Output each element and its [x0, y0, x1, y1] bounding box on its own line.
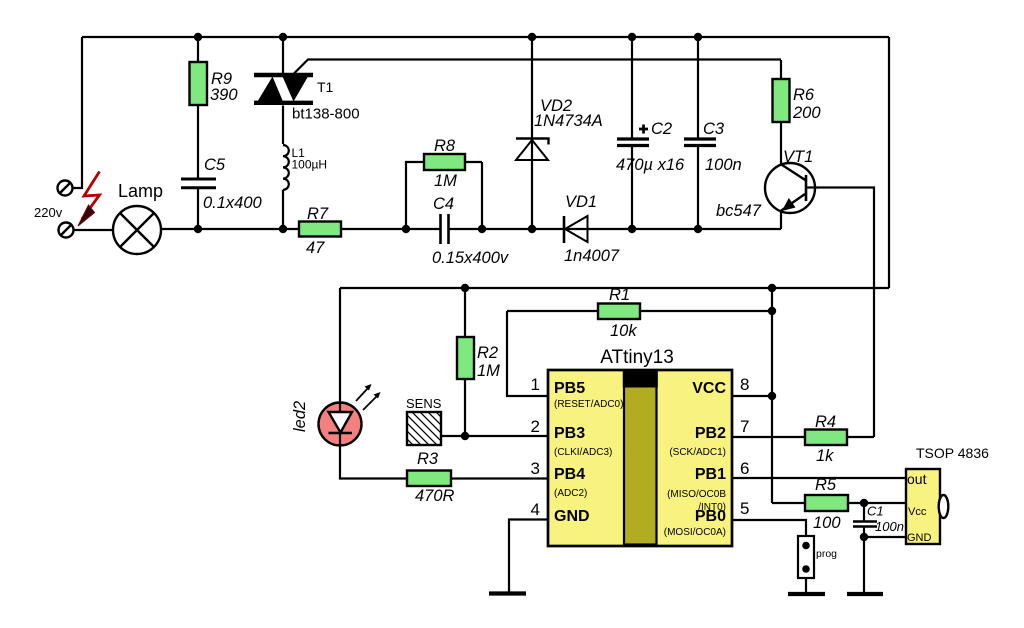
svg-text:10k: 10k [610, 322, 637, 340]
svg-text:out: out [907, 471, 927, 487]
node junction top T1 [279, 33, 287, 41]
resistor R1 [507, 286, 772, 340]
node junction top VD2 [528, 33, 536, 41]
svg-text:100µH: 100µH [292, 158, 328, 172]
svg-text:2: 2 [531, 417, 540, 436]
svg-text:GND: GND [554, 508, 590, 525]
resistor R5 [805, 476, 906, 532]
node junction bottom C4 right [478, 225, 486, 233]
svg-text:100n: 100n [705, 156, 742, 174]
ground prog [788, 592, 825, 596]
svg-text:100: 100 [813, 514, 841, 532]
diode VD1 [564, 193, 620, 265]
svg-text:prog: prog [816, 548, 837, 560]
wire VT1 emitter drop [780, 211, 782, 229]
svg-text:200: 200 [792, 104, 821, 122]
svg-text:bc547: bc547 [716, 202, 762, 220]
terminal 220v top [58, 181, 73, 196]
wire pin8 VCC [732, 395, 772, 397]
svg-text:VCC: VCC [692, 380, 726, 397]
svg-text:TSOP 4836: TSOP 4836 [916, 445, 989, 461]
zener diode VD2 [516, 37, 603, 229]
wire top rail [82, 36, 889, 38]
node junction bottom C4 left [402, 225, 410, 233]
wire T1 gate [294, 60, 781, 74]
node junction C1 top [860, 499, 868, 507]
node junction top C2 [628, 33, 636, 41]
svg-text:R7: R7 [307, 205, 329, 223]
lamp [113, 206, 161, 254]
svg-text:1M: 1M [477, 362, 500, 380]
transistor VT1 [716, 148, 815, 220]
wire pin6 to TSOP out [732, 477, 906, 479]
sensor SENS [406, 396, 548, 445]
svg-text:PB3: PB3 [554, 425, 585, 442]
capacitor C4 [432, 195, 510, 267]
pin 8 label VCC [692, 375, 749, 397]
svg-text:1n4007: 1n4007 [564, 247, 620, 265]
capacitor C2 electrolytic [616, 37, 685, 229]
svg-text:(MOSI/OC0A): (MOSI/OC0A) [664, 527, 726, 538]
svg-text:R3: R3 [417, 450, 439, 468]
wire pin1 [507, 311, 548, 396]
node junction top C3 [694, 33, 702, 41]
svg-text:SENS: SENS [406, 396, 442, 411]
pin 4 label GND [531, 500, 590, 525]
svg-text:PB0: PB0 [695, 508, 726, 525]
svg-text:1M: 1M [434, 172, 457, 190]
resistor R4 [805, 413, 874, 465]
svg-text:470µ x16: 470µ x16 [616, 156, 685, 174]
svg-text:GND: GND [907, 532, 932, 544]
node junction R2 top [461, 284, 469, 292]
svg-text:R6: R6 [793, 86, 815, 104]
svg-text:(ADC2): (ADC2) [554, 488, 587, 499]
svg-text:Lamp: Lamp [118, 181, 163, 201]
resistor R6 [773, 60, 822, 165]
lightning arrow [78, 172, 100, 227]
pin 1 label PB5 [531, 375, 624, 410]
svg-text:C4: C4 [433, 195, 454, 213]
svg-text:led2: led2 [291, 401, 309, 432]
svg-text:R1: R1 [609, 286, 630, 304]
svg-text:47: 47 [306, 239, 325, 257]
svg-text:Vcc: Vcc [908, 506, 927, 518]
svg-text:C3: C3 [703, 120, 725, 138]
svg-text:1: 1 [531, 375, 540, 394]
IC TSOP4836 body [906, 445, 989, 544]
node junction bottom C5 [194, 225, 202, 233]
resistor R9 [190, 37, 239, 179]
wire bottom mains run [74, 229, 781, 230]
resistor R7 [299, 205, 341, 257]
svg-text:220v: 220v [34, 205, 63, 220]
svg-text:C5: C5 [204, 156, 226, 174]
wire pin5 to prog [732, 520, 806, 536]
wire left drop to terminal [73, 37, 82, 188]
pin 3 label PB4 [531, 459, 588, 499]
pin 6 label PB1 [667, 459, 749, 513]
inductor L1 [283, 145, 327, 229]
svg-text:390: 390 [210, 86, 238, 104]
triac T1 [254, 37, 360, 144]
svg-text:1k: 1k [816, 447, 834, 465]
node junction bottom L1 [279, 225, 287, 233]
node junction top R9 [194, 33, 202, 41]
svg-text:PB4: PB4 [554, 466, 585, 483]
pin 5 label PB0 [664, 499, 750, 538]
svg-text:VT1: VT1 [783, 148, 813, 166]
pin 7 label PB2 [669, 417, 749, 458]
connector prog [798, 536, 837, 592]
svg-text:(SCK/ADC1): (SCK/ADC1) [669, 447, 726, 458]
svg-text:7: 7 [740, 417, 749, 436]
ground C1 [847, 592, 883, 596]
wire led2 branch down [340, 288, 407, 479]
svg-text:PB1: PB1 [695, 466, 726, 483]
svg-text:C1: C1 [867, 504, 884, 519]
node junction pin8 [768, 392, 776, 400]
svg-text:4: 4 [531, 500, 540, 519]
capacitor C3 [684, 37, 742, 229]
svg-text:0.1x400: 0.1x400 [203, 194, 263, 212]
node junction C1 bottom / TSOP GND [860, 533, 868, 541]
resistor R2 [457, 288, 500, 436]
svg-text:ATtiny13: ATtiny13 [600, 347, 674, 368]
IC U1 ATtiny13 body [548, 347, 732, 546]
svg-text:bt138-800: bt138-800 [292, 106, 360, 123]
wire VCC vertical [772, 288, 805, 503]
node junction bottom C2 [628, 225, 636, 233]
capacitor C5 [181, 156, 263, 229]
LED led2 [291, 384, 381, 447]
svg-text:6: 6 [740, 459, 749, 478]
svg-text:VD1: VD1 [565, 193, 597, 211]
svg-text:(CLKI/ADC3): (CLKI/ADC3) [554, 447, 612, 458]
svg-text:C2: C2 [651, 120, 672, 138]
svg-text:R4: R4 [815, 413, 836, 431]
wire pin4 GND [509, 520, 548, 593]
svg-text:3: 3 [531, 459, 540, 478]
svg-text:PB5: PB5 [554, 380, 585, 397]
node junction bottom VD2 [528, 225, 536, 233]
pin 2 label PB3 [531, 417, 613, 458]
svg-text:R5: R5 [815, 476, 837, 494]
svg-text:T1: T1 [317, 79, 334, 95]
capacitor C1 [853, 503, 904, 537]
node junction R2 bottom / pin2 [461, 432, 469, 440]
wire right drop from top rail [888, 37, 890, 288]
svg-text:R8: R8 [434, 137, 456, 155]
terminal 220v bottom [59, 223, 74, 238]
wire TSOP GND [864, 537, 906, 592]
resistor R3 [407, 450, 548, 505]
svg-text:1N4734A: 1N4734A [534, 112, 603, 130]
node junction bottom C3 [694, 225, 702, 233]
svg-text:8: 8 [740, 375, 749, 394]
resistor R8 [406, 137, 482, 229]
svg-text:0.15x400v: 0.15x400v [432, 249, 510, 267]
svg-text:470R: 470R [415, 487, 455, 505]
wire VT1 base to R4 [806, 188, 874, 438]
svg-text:R2: R2 [477, 344, 498, 362]
svg-text:100n: 100n [875, 519, 904, 534]
ground pin4 [489, 591, 526, 595]
svg-text:5: 5 [740, 499, 749, 518]
node junction VCC vertical top [768, 284, 776, 292]
wire VCC row [340, 287, 889, 289]
node junction R1 right [768, 307, 776, 315]
svg-text:(RESET/ADC0): (RESET/ADC0) [554, 399, 623, 410]
svg-text:(MISO/OC0B: (MISO/OC0B [667, 489, 726, 500]
wire pin7 to R4 [732, 436, 805, 438]
svg-text:PB2: PB2 [695, 425, 726, 442]
